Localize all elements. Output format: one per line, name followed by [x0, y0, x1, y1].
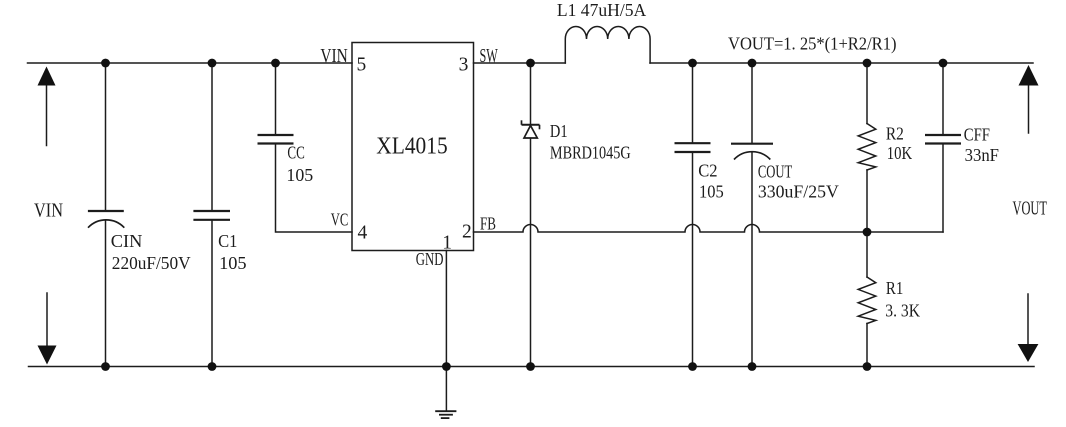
svg-text:C2: C2	[698, 161, 717, 181]
svg-text:FB: FB	[480, 214, 496, 234]
svg-text:105: 105	[286, 165, 313, 185]
svg-text:33nF: 33nF	[965, 145, 999, 165]
svg-text:3. 3K: 3. 3K	[885, 300, 920, 320]
svg-text:R2: R2	[886, 124, 904, 144]
svg-text:D1: D1	[550, 121, 568, 141]
svg-text:VOUT=1. 25*(1+R2/R1): VOUT=1. 25*(1+R2/R1)	[728, 34, 897, 55]
svg-text:MBRD1045G: MBRD1045G	[550, 143, 631, 163]
svg-text:VOUT: VOUT	[1013, 199, 1048, 220]
svg-text:VIN: VIN	[320, 46, 347, 67]
svg-text:COUT: COUT	[758, 162, 792, 182]
svg-text:CIN: CIN	[111, 231, 143, 251]
svg-text:5: 5	[357, 54, 367, 75]
svg-text:R1: R1	[886, 278, 903, 298]
svg-text:VIN: VIN	[34, 201, 63, 222]
svg-text:220uF/50V: 220uF/50V	[112, 253, 191, 273]
svg-text:105: 105	[699, 182, 724, 202]
svg-text:1: 1	[442, 233, 452, 254]
svg-text:C1: C1	[218, 231, 237, 251]
svg-text:CFF: CFF	[964, 124, 990, 144]
svg-text:330uF/25V: 330uF/25V	[758, 182, 839, 202]
svg-text:4: 4	[358, 222, 368, 243]
svg-text:SW: SW	[480, 46, 499, 67]
svg-text:L1 47uH/5A: L1 47uH/5A	[557, 0, 646, 20]
svg-text:GND: GND	[416, 249, 444, 269]
svg-text:2: 2	[462, 222, 472, 243]
svg-text:3: 3	[459, 54, 469, 75]
svg-text:10K: 10K	[887, 143, 912, 163]
svg-text:XL4015: XL4015	[376, 134, 447, 160]
svg-text:CC: CC	[287, 143, 304, 163]
svg-text:VC: VC	[331, 209, 349, 229]
svg-text:105: 105	[219, 253, 247, 273]
